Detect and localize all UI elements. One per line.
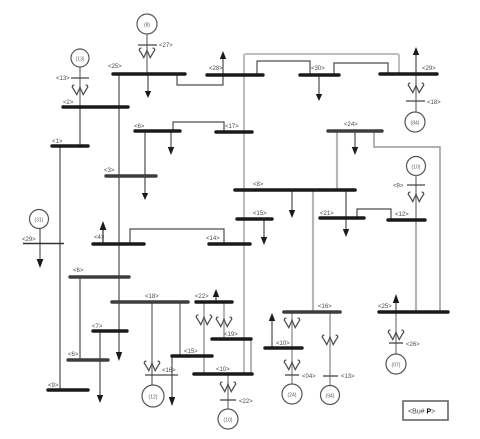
- load arrow up on bus 25: [395, 302, 397, 312]
- bus 6a (B2): [135, 129, 180, 132]
- load arrow up on bus 28: [222, 58, 224, 75]
- load arrow on bus 24: [354, 132, 356, 148]
- bus 18 (B14): [112, 300, 188, 304]
- wire: U-link bus 6a to bus 17: [173, 122, 224, 132]
- load arrow on bus 5b: [97, 395, 103, 403]
- bus 15a (B5): [237, 217, 272, 220]
- svg-text:<27>: <27>: [159, 43, 173, 49]
- svg-text:<10>: <10>: [216, 367, 230, 373]
- svg-text:<28>: <28>: [209, 66, 223, 72]
- svg-text:<18>: <18>: [427, 100, 441, 106]
- svg-text:(24): (24): [288, 393, 297, 399]
- svg-text:<16>: <16>: [162, 368, 176, 374]
- bus 5 (top A1): [113, 72, 185, 75]
- svg-text:<30>: <30>: [311, 66, 325, 72]
- svg-text:<22>: <22>: [195, 294, 209, 300]
- wire: long gray feeder from bus 10 up and across to bus 29: [244, 54, 399, 374]
- wire: bus 22 to bus 15 via transformer: [203, 302, 205, 374]
- wire: U-link bus 30 to bus 29: [334, 63, 388, 75]
- bus 16 (B8): [284, 310, 340, 314]
- load arrow on bus 7: [116, 352, 122, 361]
- annotation box Bus P: [403, 401, 448, 420]
- transformer T12 below bus 25: [388, 330, 403, 339]
- svg-text:<8>: <8>: [253, 182, 264, 188]
- load arrow up on bus 4: [102, 229, 104, 244]
- bus 3: [106, 174, 156, 177]
- wire: bus 19 to bus 10: [250, 339, 252, 374]
- wire: U-link bus 5 to bus 28: [177, 74, 223, 85]
- load arrow on bus 5: [147, 74, 149, 92]
- svg-text:<7>: <7>: [92, 324, 103, 330]
- svg-text:<15>: <15>: [184, 349, 198, 355]
- svg-text:<15>: <15>: [253, 211, 267, 217]
- wire: bus 20 down to machine dash: [291, 348, 293, 384]
- transformer T3: [408, 83, 423, 92]
- transformer T2: [72, 85, 87, 94]
- bus 30 (A3): [300, 73, 339, 76]
- load arrow on bus 8: [291, 191, 293, 211]
- generator G8: [282, 384, 302, 404]
- transformer T4: [408, 192, 423, 201]
- svg-text:<18>: <18>: [145, 294, 159, 300]
- bus 8: [235, 188, 355, 192]
- svg-text:<6>: <6>: [73, 268, 84, 274]
- svg-text:<6>: <6>: [68, 352, 79, 358]
- svg-text:<13>: <13>: [56, 76, 70, 82]
- load arrow on bus 3: [144, 177, 146, 194]
- wire: bus 1 to bus 9: [59, 146, 61, 390]
- svg-text:<14>: <14>: [206, 236, 220, 242]
- wire: U-link bus 21 to bus 12: [357, 209, 391, 220]
- svg-text:<4>: <4>: [94, 235, 105, 241]
- node dash below T11: [220, 399, 236, 401]
- generator G6: [142, 385, 164, 407]
- node dash bus 28b: [406, 100, 425, 102]
- svg-text:<9>: <9>: [48, 383, 59, 389]
- svg-text:<04>: <04>: [302, 374, 316, 380]
- transformer T9 below bus 16: [322, 335, 337, 344]
- svg-text:<10>: <10>: [276, 341, 290, 347]
- wire: bus 8 to bus 21 plus load arrow: [345, 191, 347, 230]
- wire: bus 6a to bus 3: [144, 131, 146, 176]
- transformer T1: [139, 48, 154, 57]
- svg-text:(13): (13): [76, 57, 85, 63]
- generator G4 top right: [405, 112, 425, 132]
- load arrow up on bus 29: [415, 54, 417, 74]
- transformer T11 below bus 10: [220, 382, 235, 391]
- bus 1: [52, 144, 88, 147]
- bus 20 (B10): [265, 346, 302, 349]
- node dash bus 27: [138, 44, 157, 46]
- svg-text:<25>: <25>: [378, 304, 392, 310]
- wire: main vertical trunk bus 5 to load arrow through buses 2,3,4,6,18,7: [118, 74, 120, 352]
- wire: bus 25 down to machine stack: [395, 312, 397, 354]
- svg-text:<21>: <21>: [320, 211, 334, 217]
- transformer T8 below bus 20: [284, 360, 299, 369]
- node dash bus 9: [407, 184, 425, 186]
- svg-text:<29>: <29>: [22, 237, 36, 243]
- svg-text:<2>: <2>: [63, 100, 74, 106]
- svg-text:(10): (10): [224, 418, 233, 424]
- svg-text:<3>: <3>: [104, 168, 115, 174]
- svg-text:<22>: <22>: [239, 399, 253, 405]
- svg-text:<29>: <29>: [422, 66, 436, 72]
- transformer T10 below bus 18: [144, 361, 159, 370]
- generator G7: [218, 409, 238, 429]
- svg-text:<24>: <24>: [344, 122, 358, 128]
- svg-text:<26>: <26>: [406, 342, 420, 348]
- svg-text:(12): (12): [149, 395, 158, 401]
- wire: bus 18 to bus 15: [179, 302, 181, 356]
- load arrow up on bus 22: [215, 297, 217, 302]
- wire: U-link bus 28 to bus 30: [257, 61, 310, 75]
- load arrow on bus 30: [318, 75, 320, 95]
- svg-text:<16>: <16>: [318, 304, 332, 310]
- svg-text:(8): (8): [144, 23, 150, 29]
- node bus 26 thin bar: [23, 243, 64, 245]
- svg-text:<13>: <13>: [341, 374, 355, 380]
- svg-text:(31): (31): [35, 218, 44, 224]
- wire: gray drop bus 8 to bus 16: [312, 190, 314, 312]
- svg-text:<19>: <19>: [224, 332, 238, 338]
- bus 22 (B15): [196, 300, 232, 303]
- svg-text:<25>: <25>: [108, 64, 122, 70]
- svg-text:(10): (10): [412, 165, 421, 171]
- node dash below T8: [285, 374, 299, 376]
- load arrow on bus 6a right: [170, 132, 172, 148]
- wire: gray drop bus 12 to bus 25: [415, 220, 417, 312]
- generator G10: [386, 354, 406, 374]
- bus 14: [209, 242, 250, 245]
- wire: bus 18 down to machine stack: [151, 302, 153, 385]
- wire: bus 24 corner feeder to bus 25: [374, 131, 440, 312]
- bus 24 (B22): [328, 129, 382, 132]
- generator G9: [321, 386, 340, 405]
- wire: bus 2 to bus 1: [79, 107, 81, 146]
- bus 9 (B13): [48, 388, 88, 391]
- wire: bus 10 down to machine stack: [227, 374, 229, 409]
- node dash bus 13: [71, 77, 89, 79]
- bus 6 (B_6): [70, 275, 129, 278]
- wire: bus 16 to bus 20 via transformer: [291, 312, 293, 348]
- wire: U-link bus 4 to bus 14: [130, 229, 224, 244]
- svg-text:(07): (07): [392, 363, 401, 369]
- bus 29 (A4): [380, 72, 437, 75]
- svg-text:<1>: <1>: [52, 139, 63, 145]
- svg-text:(84): (84): [411, 121, 420, 127]
- load arrow on bus 15 tap: [171, 357, 173, 398]
- svg-text:(94): (94): [326, 394, 335, 400]
- wire: bus 6 to bus 5b: [79, 277, 81, 360]
- generator G2: [71, 49, 89, 67]
- generator G5 right middle: [407, 157, 426, 176]
- wire: gray drop bus 24 to bus 8: [336, 131, 338, 190]
- load arrow below: [37, 259, 44, 268]
- bus 4: [93, 242, 144, 245]
- bus 10 (B19): [194, 372, 252, 376]
- svg-text:<17>: <17>: [225, 124, 239, 130]
- node dash below T12: [389, 342, 403, 344]
- bus 15 (B17): [172, 354, 212, 357]
- wire: bus 22 to bus 19 via transformer: [223, 302, 225, 339]
- bus 21 (B6): [320, 216, 364, 219]
- svg-text:<Bu# P>: <Bu# P>: [408, 409, 435, 416]
- load arrow on bus 15a: [263, 220, 265, 238]
- bus 5b (B12): [68, 358, 108, 361]
- wire: bus 16 down to machine dash: [329, 312, 331, 386]
- svg-text:<12>: <12>: [395, 212, 409, 218]
- bus 17 (B3): [216, 130, 252, 133]
- wire: bus 7 to bus 5b with load arrow: [99, 331, 101, 395]
- bus 2 (B1): [63, 105, 128, 108]
- node dash below T9: [323, 375, 338, 377]
- bus 19 (B18): [212, 337, 251, 340]
- bus 28 (A2): [207, 73, 263, 76]
- transformer T6 on 22-19 feeder: [216, 317, 231, 326]
- generator G3: [30, 210, 49, 229]
- bus 7 (B11): [93, 329, 127, 332]
- transformer T5 on 22-15 feeder: [196, 315, 211, 324]
- bus 12 (B7): [388, 218, 425, 221]
- generator G1: [137, 14, 157, 34]
- transformer T7 on 16-20 feeder: [284, 318, 299, 327]
- node dash bus 16b: [145, 374, 178, 376]
- svg-text:<6>: <6>: [134, 124, 145, 130]
- svg-text:<9>: <9>: [393, 184, 404, 190]
- load arrow up on bus 20: [271, 320, 273, 348]
- bus 25: [379, 310, 448, 313]
